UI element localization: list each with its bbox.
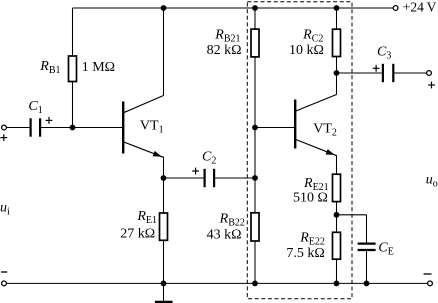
plus polarity mark at input [0, 134, 7, 141]
node F dot (R_E21 / R_E22 / C_E junction) [334, 212, 340, 218]
junction dot R_B22 at bottom rail [252, 281, 258, 287]
wire R_B22 to bottom rail [254, 241, 256, 283]
transistor VT1 [123, 96, 163, 158]
label 27 kOhm [120, 227, 155, 242]
wire VT1 collector to top rail [163, 8, 165, 96]
label C_E [378, 240, 393, 257]
label R_B22 [219, 212, 245, 229]
junction dot VT1 collector at top rail [161, 5, 167, 11]
resistor R_E22 [333, 232, 341, 259]
wire VT1 emitter down to node B [163, 157, 165, 178]
wire R_E22 to bottom rail [336, 259, 338, 283]
resistor R_B22 [251, 213, 259, 241]
plus polarity mark at output [428, 82, 435, 89]
node D dot (VT2 base tap) [252, 125, 258, 131]
plus polarity mark at C3 [373, 65, 380, 72]
wire VT2 collector up to node E [336, 73, 338, 95]
minus polarity mark bottom-left [1, 271, 7, 273]
wire top rail down to R_C2 [336, 8, 338, 29]
junction dot R_E1 at bottom rail [161, 281, 167, 287]
resistor R_B21 [251, 29, 259, 57]
wire bottom common rail [6, 282, 427, 284]
output terminal bottom [428, 281, 433, 286]
wire C_E to bottom rail [366, 251, 368, 283]
wire node B to C2 [164, 177, 205, 179]
wire node C down to R_B22 [254, 178, 256, 213]
label R_C2 [302, 28, 323, 45]
label 510 Ohm [293, 191, 328, 206]
label 43 kOhm [207, 227, 242, 242]
label 1 MOhm [82, 60, 115, 75]
wire top rail down to R_B1 [72, 8, 74, 56]
ground [155, 283, 173, 302]
svg-text:10 kΩ: 10 kΩ [289, 43, 324, 58]
label VT2 [313, 121, 337, 138]
wire top +24V supply rail [73, 7, 394, 9]
transistor VT2 [295, 95, 336, 156]
wire R_E1 to bottom rail [163, 240, 165, 283]
label R_E21 [303, 176, 329, 193]
wire node B down to R_E1 [163, 178, 165, 213]
wire R_B21 to node D [254, 57, 256, 128]
resistor R_B1 [69, 56, 77, 82]
svg-text:7.5 kΩ: 7.5 kΩ [286, 246, 324, 261]
svg-text:82 kΩ: 82 kΩ [207, 43, 242, 58]
resistor R_E1 [160, 213, 168, 240]
wire R_E21 to node F [336, 202, 338, 233]
minus polarity mark bottom-right [424, 273, 432, 275]
label u_i [0, 200, 10, 217]
plus polarity mark at C1 [46, 117, 53, 124]
svg-text:510 Ω: 510 Ω [293, 191, 328, 206]
junction dot R_E22 at bottom rail [334, 281, 340, 287]
output terminal top [427, 71, 432, 76]
svg-text:43 kΩ: 43 kΩ [207, 227, 242, 242]
label 10 kOhm [289, 43, 324, 58]
input terminal [2, 125, 7, 130]
label R_E22 [299, 231, 325, 248]
wire node D down to node C [254, 128, 256, 179]
wire node D to VT2 base [255, 127, 295, 129]
dashed box around second stage [247, 2, 352, 299]
label C1 [28, 99, 42, 116]
label R_B21 [214, 28, 240, 45]
svg-text:27 kΩ: 27 kΩ [120, 227, 155, 242]
bottom-left terminal [2, 281, 7, 286]
label u_o [426, 173, 438, 190]
plus polarity mark at C2 [192, 168, 199, 175]
label VT1 [140, 119, 164, 136]
terminal +24 V supply [393, 6, 398, 11]
wire top rail down to R_B21 [254, 8, 256, 29]
resistor R_C2 [333, 29, 341, 56]
resistor R_E21 [333, 174, 341, 201]
wire VT2 emitter down to R_E21 [336, 155, 338, 174]
wire C3 to output terminal [394, 72, 427, 74]
wire C1 to node A [41, 127, 73, 129]
capacitor C3 [383, 64, 393, 82]
node C dot (C2 / divider junction) [252, 175, 258, 181]
wire R_B1 to node A [72, 82, 74, 128]
label 82 kOhm [207, 43, 242, 58]
capacitor C2 [205, 169, 215, 187]
label +24 V [403, 0, 437, 15]
capacitor C1 [31, 118, 40, 136]
wire node A to VT1 base [73, 127, 123, 129]
wire node E to C3 [337, 72, 383, 74]
junction dot R_B21 at top rail [252, 5, 258, 11]
wire R_C2 to node E [336, 57, 338, 74]
svg-text:+24 V: +24 V [403, 0, 437, 15]
label C2 [202, 149, 216, 166]
label C3 [377, 44, 391, 61]
wire input to C1 [6, 127, 30, 129]
node E dot (R_C2 / VT2 collector / C3 junction) [334, 70, 340, 76]
svg-text:1 MΩ: 1 MΩ [82, 60, 115, 75]
junction dot C_E at bottom rail [364, 281, 370, 287]
node A dot (R_B1 / C1 / VT1 base junction) [70, 125, 76, 131]
label R_E1 [136, 209, 157, 226]
label R_B1 [39, 59, 60, 76]
label 7.5 kOhm [286, 246, 324, 261]
wire node F right and down to C_E [337, 215, 367, 243]
wire C2 to node C [215, 177, 255, 179]
junction dot R_C2 at top rail [334, 5, 340, 11]
node B dot (VT1 emitter / C2 / R_E1 junction) [161, 175, 167, 181]
capacitor C_E [358, 244, 376, 250]
